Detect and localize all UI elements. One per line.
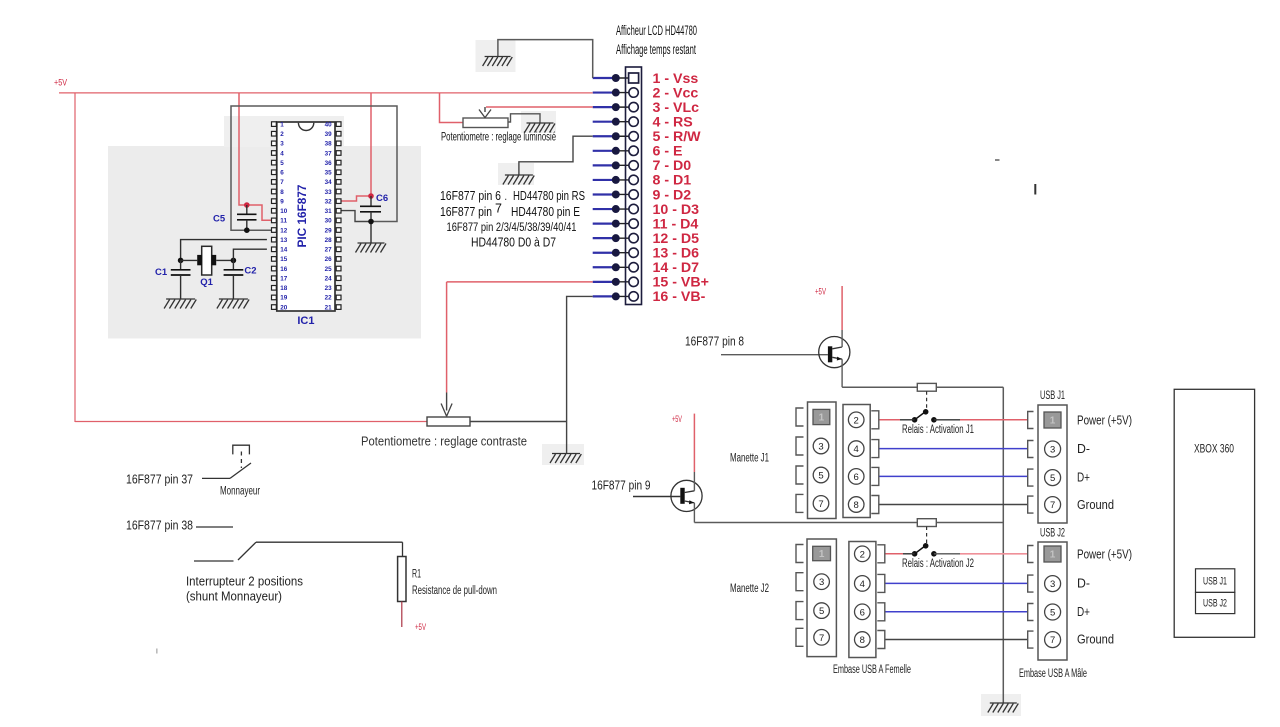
svg-text:5: 5	[1050, 608, 1055, 619]
svg-text:+5V: +5V	[54, 78, 67, 88]
svg-text:5: 5	[1050, 473, 1055, 484]
svg-text:10: 10	[280, 208, 288, 215]
svg-text:16F877 pin 38: 16F877 pin 38	[126, 518, 193, 533]
svg-text:24: 24	[325, 275, 333, 282]
svg-text:31: 31	[325, 208, 333, 215]
svg-text:USB J1: USB J1	[1040, 390, 1065, 402]
svg-text:8: 8	[854, 500, 859, 511]
svg-text:Embase USB A Mâle: Embase USB A Mâle	[1019, 668, 1087, 680]
svg-text:Relais : Activation J2: Relais : Activation J2	[902, 558, 974, 570]
svg-text:+5V: +5V	[815, 287, 826, 297]
svg-text:Ground: Ground	[1077, 498, 1114, 512]
svg-text:D-: D-	[1077, 577, 1090, 591]
svg-text:16: 16	[280, 266, 288, 273]
svg-text:13: 13	[280, 237, 288, 244]
svg-text:+5V: +5V	[672, 414, 682, 424]
svg-text:6: 6	[854, 472, 859, 483]
svg-text:16F877 pin 6: 16F877 pin 6	[440, 188, 501, 203]
svg-text:18: 18	[280, 285, 288, 292]
svg-text:(shunt Monnayeur): (shunt Monnayeur)	[186, 589, 282, 604]
svg-text:4: 4	[280, 150, 284, 157]
svg-text:USB J2: USB J2	[1040, 528, 1065, 540]
svg-text:27: 27	[325, 247, 333, 254]
svg-text:D+: D+	[1077, 605, 1090, 619]
svg-text:7: 7	[819, 633, 824, 644]
svg-text:15: 15	[280, 256, 288, 263]
svg-text:40: 40	[325, 121, 333, 128]
svg-text:5: 5	[819, 606, 824, 617]
svg-text:28: 28	[325, 237, 333, 244]
svg-text:6: 6	[860, 607, 865, 618]
svg-text:16F877 pin: 16F877 pin	[440, 204, 492, 219]
svg-text:C5: C5	[213, 213, 226, 224]
svg-text:Potentiometre : reglage lumino: Potentiometre : reglage luminosié	[441, 132, 556, 144]
svg-text:Manette J1: Manette J1	[730, 453, 769, 465]
svg-text:Potentiometre : reglage contra: Potentiometre : reglage contraste	[361, 434, 527, 449]
svg-text:Power (+5V): Power (+5V)	[1077, 414, 1132, 428]
svg-text:3: 3	[819, 577, 824, 588]
svg-text:16F877 pin 37: 16F877 pin 37	[126, 472, 193, 487]
svg-text:38: 38	[325, 141, 333, 148]
svg-text:Ground: Ground	[1077, 633, 1114, 647]
svg-text:32: 32	[325, 198, 333, 205]
svg-text:23: 23	[325, 285, 333, 292]
svg-text:R1: R1	[412, 569, 421, 581]
svg-text:PIC 16F877: PIC 16F877	[295, 184, 309, 247]
svg-text:16F877 pin 9: 16F877 pin 9	[592, 478, 651, 493]
svg-text:Afficheur LCD HD44780: Afficheur LCD HD44780	[616, 23, 697, 38]
svg-text:2: 2	[860, 549, 865, 560]
svg-text:8: 8	[860, 635, 865, 646]
svg-text:7: 7	[818, 499, 823, 510]
svg-text:6: 6	[280, 170, 284, 177]
svg-text:11: 11	[280, 218, 287, 225]
svg-text:34: 34	[325, 179, 333, 186]
svg-text:Q1: Q1	[200, 277, 213, 288]
svg-text:17: 17	[280, 275, 288, 282]
svg-text:+5V: +5V	[415, 622, 426, 632]
svg-text:1: 1	[1050, 416, 1056, 427]
svg-text:3: 3	[818, 442, 823, 453]
svg-text:19: 19	[280, 295, 288, 302]
svg-text:12: 12	[280, 227, 288, 234]
svg-text:30: 30	[325, 218, 333, 225]
svg-text:1: 1	[819, 413, 825, 424]
svg-text:4: 4	[854, 444, 859, 455]
svg-text:16 - VB-: 16 - VB-	[653, 289, 706, 305]
svg-text:8: 8	[280, 189, 284, 196]
svg-text:HD44780 pin E: HD44780 pin E	[511, 204, 580, 219]
svg-text:HD44780 D0 à D7: HD44780 D0 à D7	[471, 235, 556, 250]
svg-text:2: 2	[854, 415, 859, 426]
svg-text:Power (+5V): Power (+5V)	[1077, 548, 1132, 562]
svg-text:Monnayeur: Monnayeur	[220, 486, 260, 498]
svg-text:16F877 pin 2/3/4/5/38/39/40/41: 16F877 pin 2/3/4/5/38/39/40/41	[447, 222, 577, 234]
svg-text:D-: D-	[1077, 442, 1090, 456]
svg-text:3: 3	[1050, 579, 1055, 590]
svg-text:.: .	[504, 189, 507, 203]
svg-text:1: 1	[819, 549, 825, 560]
svg-text:1: 1	[1050, 550, 1056, 561]
svg-text:C1: C1	[155, 267, 168, 278]
svg-text:25: 25	[325, 266, 333, 273]
svg-text:Resistance de pull-down: Resistance de pull-down	[412, 585, 497, 597]
svg-text:37: 37	[325, 150, 333, 157]
svg-text:5: 5	[818, 471, 823, 482]
svg-text:3: 3	[1050, 445, 1055, 456]
svg-text:Affichage temps restant: Affichage temps restant	[616, 42, 696, 57]
svg-text:Interrupteur 2 positions: Interrupteur 2 positions	[186, 574, 303, 589]
svg-text:Manette J2: Manette J2	[730, 583, 769, 595]
svg-text:39: 39	[325, 131, 333, 138]
svg-text:D+: D+	[1077, 471, 1090, 485]
svg-text:22: 22	[325, 295, 333, 302]
svg-text:33: 33	[325, 189, 333, 196]
svg-text:7: 7	[1050, 635, 1055, 646]
svg-text:Relais : Activation J1: Relais : Activation J1	[902, 424, 974, 436]
svg-text:2: 2	[280, 131, 284, 138]
svg-text:21: 21	[325, 304, 333, 311]
svg-text:7: 7	[495, 202, 502, 216]
svg-text:USB J1: USB J1	[1203, 576, 1227, 588]
svg-text:XBOX 360: XBOX 360	[1194, 444, 1234, 456]
svg-text:3: 3	[280, 141, 284, 148]
svg-text:HD44780 pin RS: HD44780 pin RS	[513, 188, 585, 203]
svg-text:9: 9	[280, 198, 284, 205]
svg-text:1: 1	[280, 121, 284, 128]
svg-text:29: 29	[325, 227, 333, 234]
svg-text:IC1: IC1	[297, 315, 314, 327]
svg-text:7: 7	[280, 179, 284, 186]
svg-text:14: 14	[280, 247, 288, 254]
svg-text:7: 7	[1050, 500, 1055, 511]
svg-text:26: 26	[325, 256, 333, 263]
svg-text:USB J2: USB J2	[1203, 598, 1227, 610]
svg-text:35: 35	[325, 170, 333, 177]
svg-text:4: 4	[860, 579, 865, 590]
svg-text:36: 36	[325, 160, 333, 167]
svg-text:5: 5	[280, 160, 284, 167]
svg-text:C6: C6	[376, 193, 388, 204]
svg-text:16F877 pin 8: 16F877 pin 8	[685, 334, 744, 349]
svg-text:20: 20	[280, 304, 288, 311]
svg-text:Embase USB A Femelle: Embase USB A Femelle	[833, 664, 911, 676]
svg-text:C2: C2	[244, 265, 256, 276]
